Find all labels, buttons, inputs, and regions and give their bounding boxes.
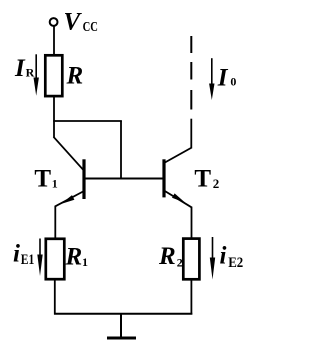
svg-text:E1: E1 [21, 252, 35, 268]
ground stub [120, 314, 122, 338]
transistor T1 collector [54, 137, 85, 171]
wire horizontal branch to jumper [53, 120, 122, 122]
current arrow IR [34, 54, 39, 95]
wire R2 to ground bus [190, 279, 192, 315]
current arrow I0 [209, 58, 214, 100]
svg-text:E2: E2 [228, 255, 243, 271]
svg-text:i: i [13, 241, 20, 268]
wire T1 emitter to R1 [54, 206, 56, 239]
svg-text:1: 1 [52, 176, 58, 190]
wire VCC to R [53, 26, 55, 55]
wire R bottom down to collector bend [53, 96, 55, 138]
ground bus wire [54, 313, 192, 315]
svg-text:R: R [158, 243, 176, 270]
wire jumper down to base wire [120, 121, 122, 179]
svg-text:T: T [194, 165, 211, 192]
dashed output line [190, 36, 192, 53]
svg-text:CC: CC [83, 20, 98, 35]
transistor T2 emitter [164, 191, 192, 208]
svg-text:I: I [217, 65, 229, 92]
svg-text:2: 2 [177, 255, 183, 269]
resistor R2 [183, 239, 199, 280]
T2 emitter arrowhead [172, 193, 185, 202]
svg-text:2: 2 [213, 176, 220, 191]
transistor T2 collector [164, 148, 192, 164]
transistor T1 emitter [55, 191, 84, 206]
transistor T2 base bar [162, 159, 165, 197]
svg-text:R: R [26, 66, 35, 80]
base wire T1 to T2 [84, 178, 164, 180]
VCC terminal circle [50, 18, 58, 26]
svg-text:0: 0 [230, 75, 236, 89]
svg-text:R: R [66, 63, 84, 90]
svg-text:T: T [34, 166, 51, 193]
svg-text:1: 1 [82, 255, 88, 269]
ground bar [107, 337, 136, 340]
transistor T1 base bar [82, 159, 85, 199]
svg-text:V: V [64, 9, 83, 36]
current arrow iE2 [210, 237, 215, 280]
resistor R1 [46, 239, 65, 279]
wire R1 to ground bus [54, 279, 56, 315]
wire T2 emitter to R2 [191, 207, 193, 239]
svg-text:i: i [220, 243, 227, 270]
svg-text:I: I [14, 55, 26, 82]
current arrow iE1 [37, 239, 42, 277]
T1 emitter arrowhead [61, 195, 75, 204]
svg-text:R: R [65, 243, 83, 270]
resistor R [45, 55, 62, 96]
wire T2 collector vertical [190, 119, 192, 149]
